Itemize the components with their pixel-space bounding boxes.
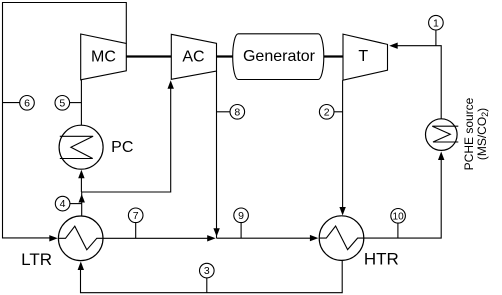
- svg-text:2: 2: [324, 106, 330, 118]
- svg-text:10: 10: [393, 211, 405, 222]
- svg-text:3: 3: [204, 265, 210, 277]
- svg-text:LTR: LTR: [21, 250, 52, 269]
- svg-text:HTR: HTR: [364, 250, 399, 269]
- svg-text:Generator: Generator: [243, 48, 316, 65]
- svg-text:5: 5: [59, 97, 65, 109]
- svg-text:PC: PC: [111, 139, 133, 156]
- svg-text:MC: MC: [91, 49, 116, 66]
- svg-text:7: 7: [133, 210, 139, 222]
- svg-text:PCHE source(MS/CO2): PCHE source(MS/CO2): [462, 97, 490, 170]
- svg-text:AC: AC: [182, 49, 204, 66]
- svg-text:1: 1: [433, 17, 439, 29]
- svg-text:9: 9: [238, 210, 244, 222]
- svg-text:8: 8: [234, 106, 240, 118]
- svg-text:6: 6: [24, 97, 30, 109]
- svg-text:T: T: [358, 48, 368, 65]
- svg-text:4: 4: [60, 198, 66, 210]
